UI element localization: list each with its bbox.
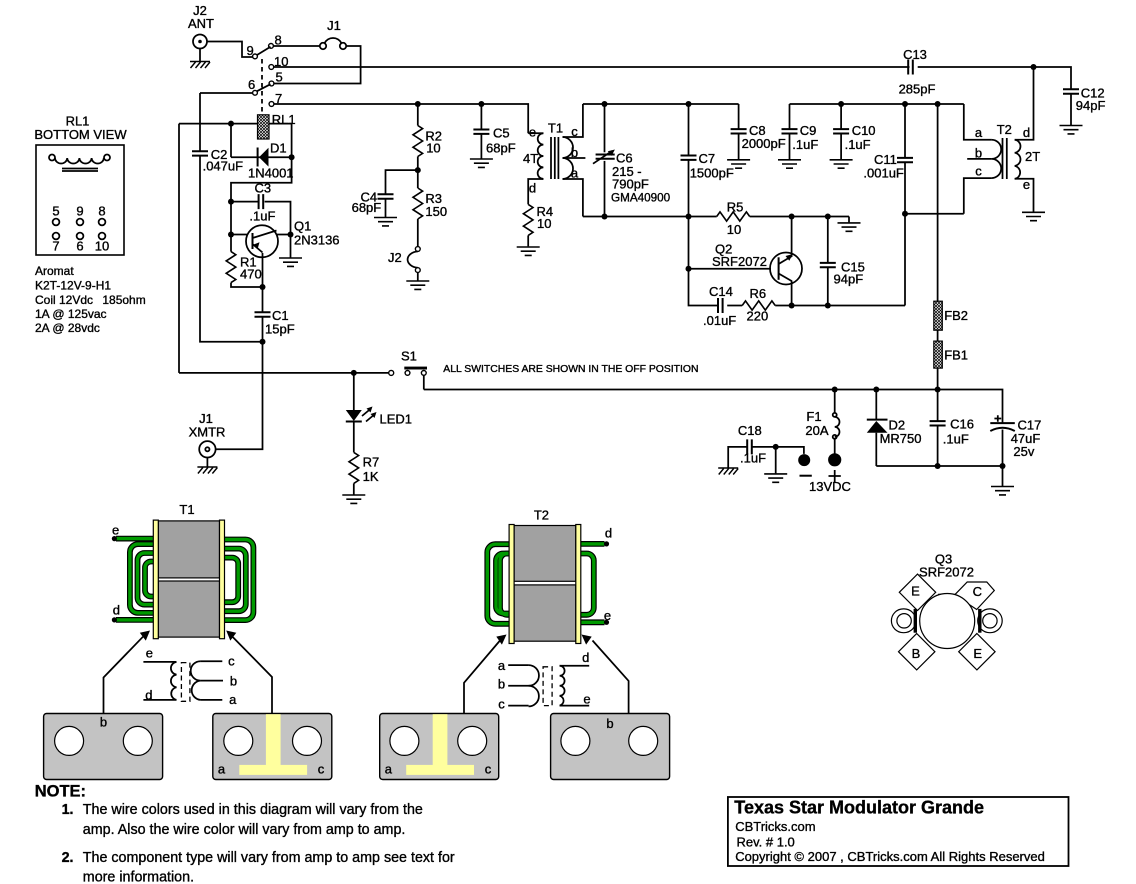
- svg-text:Rev. # 1.0: Rev. # 1.0: [737, 835, 795, 850]
- svg-text:MR750: MR750: [880, 431, 922, 446]
- svg-text:2A @ 28vdc: 2A @ 28vdc: [35, 321, 100, 335]
- svg-text:b: b: [100, 715, 107, 730]
- svg-text:Q1: Q1: [294, 219, 311, 234]
- svg-text:e: e: [1023, 177, 1030, 192]
- svg-text:8: 8: [98, 204, 105, 219]
- svg-text:470: 470: [240, 267, 262, 282]
- svg-text:SRF2072: SRF2072: [919, 565, 974, 580]
- svg-text:c: c: [228, 653, 235, 668]
- svg-text:1.: 1.: [62, 802, 74, 818]
- svg-text:C7: C7: [699, 151, 716, 166]
- svg-text:e: e: [583, 692, 590, 707]
- svg-text:Coil 12Vdc 185ohm: Coil 12Vdc 185ohm: [35, 293, 146, 307]
- svg-text:d: d: [605, 526, 612, 541]
- svg-text:RL1: RL1: [272, 112, 296, 127]
- svg-text:d: d: [145, 687, 152, 702]
- svg-text:ANT: ANT: [188, 16, 214, 31]
- svg-text:e: e: [112, 523, 119, 538]
- svg-text:2N3136: 2N3136: [294, 233, 340, 248]
- svg-text:C16: C16: [950, 417, 974, 432]
- svg-text:ALL SWITCHES ARE SHOWN IN THE: ALL SWITCHES ARE SHOWN IN THE OFF POSITI…: [443, 364, 698, 375]
- svg-text:R5: R5: [727, 200, 744, 215]
- svg-text:a: a: [385, 762, 393, 777]
- svg-text:10: 10: [537, 216, 551, 231]
- svg-text:94pF: 94pF: [834, 272, 864, 287]
- svg-text:10: 10: [426, 141, 440, 156]
- svg-text:25v: 25v: [1013, 444, 1034, 459]
- svg-text:BOTTOM VIEW: BOTTOM VIEW: [34, 127, 127, 142]
- svg-text:9: 9: [247, 43, 254, 58]
- svg-text:10: 10: [727, 222, 741, 237]
- svg-text:20A: 20A: [805, 423, 828, 438]
- svg-text:C13: C13: [903, 47, 927, 62]
- svg-text:6: 6: [248, 77, 255, 92]
- svg-text:SRF2072: SRF2072: [712, 254, 767, 269]
- svg-text:FB1: FB1: [944, 348, 968, 363]
- svg-text:b: b: [606, 716, 613, 731]
- svg-text:FB2: FB2: [944, 308, 968, 323]
- svg-text:T1: T1: [179, 502, 194, 517]
- svg-text:15pF: 15pF: [265, 322, 295, 337]
- svg-text:2T: 2T: [1025, 149, 1040, 164]
- svg-text:.01uF: .01uF: [703, 313, 736, 328]
- svg-text:e: e: [604, 608, 611, 623]
- svg-text:13VDC: 13VDC: [809, 479, 851, 494]
- svg-text:Copyright © 2007 , CBTricks.co: Copyright © 2007 , CBTricks.com All Righ…: [735, 849, 1045, 864]
- svg-text:d: d: [529, 181, 536, 196]
- svg-text:790pF: 790pF: [612, 177, 649, 192]
- svg-text:2000pF: 2000pF: [742, 136, 786, 151]
- svg-text:b: b: [230, 674, 237, 689]
- svg-text:T2: T2: [534, 508, 549, 523]
- svg-text:Texas Star Modulator Grande: Texas Star Modulator Grande: [734, 798, 984, 818]
- svg-text:a: a: [229, 692, 237, 707]
- svg-text:.047uF: .047uF: [203, 159, 244, 174]
- svg-text:a: a: [498, 658, 506, 673]
- svg-text:d: d: [1023, 125, 1030, 140]
- svg-text:6: 6: [76, 239, 83, 254]
- svg-text:.1uF: .1uF: [845, 137, 871, 152]
- svg-text:F1: F1: [806, 409, 821, 424]
- svg-text:285pF: 285pF: [899, 82, 936, 97]
- svg-text:b: b: [975, 146, 982, 161]
- svg-text:a: a: [571, 166, 579, 181]
- svg-text:1A @ 125vac: 1A @ 125vac: [35, 307, 107, 321]
- svg-text:b: b: [498, 677, 505, 692]
- svg-text:T2: T2: [997, 122, 1012, 137]
- svg-text:1N4001: 1N4001: [248, 166, 294, 181]
- svg-text:4T: 4T: [523, 151, 538, 166]
- svg-text:150: 150: [425, 204, 447, 219]
- svg-text:9: 9: [76, 204, 83, 219]
- svg-text:94pF: 94pF: [1076, 98, 1106, 113]
- svg-text:C: C: [973, 584, 982, 599]
- svg-text:XMTR: XMTR: [189, 425, 226, 440]
- svg-text:.1uF: .1uF: [249, 209, 275, 224]
- svg-text:C5: C5: [493, 126, 510, 141]
- svg-text:c: c: [318, 762, 325, 777]
- svg-text:B: B: [912, 646, 921, 661]
- svg-text:T1: T1: [548, 121, 563, 136]
- svg-text:c: c: [571, 124, 578, 139]
- svg-text:C14: C14: [709, 284, 733, 299]
- svg-text:Aromat: Aromat: [35, 264, 74, 278]
- svg-text:J1: J1: [327, 18, 341, 33]
- svg-text:b: b: [571, 145, 578, 160]
- svg-text:.1uF: .1uF: [792, 137, 818, 152]
- svg-text:C18: C18: [738, 423, 762, 438]
- svg-text:e: e: [146, 646, 153, 661]
- svg-text:68pF: 68pF: [486, 141, 516, 156]
- svg-text:5: 5: [276, 70, 283, 85]
- svg-text:1K: 1K: [363, 469, 379, 484]
- svg-text:68pF: 68pF: [352, 200, 382, 215]
- svg-text:a: a: [218, 762, 226, 777]
- svg-text:amp. Also the wire color will: amp. Also the wire color will vary from …: [83, 822, 406, 838]
- svg-text:E: E: [973, 646, 982, 661]
- svg-text:R6: R6: [750, 286, 767, 301]
- svg-text:The wire colors used in this d: The wire colors used in this diagram wil…: [83, 802, 423, 818]
- svg-text:10: 10: [95, 239, 109, 254]
- svg-text:NOTE:: NOTE:: [35, 783, 86, 801]
- svg-text:D1: D1: [270, 141, 287, 156]
- svg-text:5: 5: [52, 204, 59, 219]
- svg-text:7: 7: [52, 239, 59, 254]
- svg-text:d: d: [113, 603, 120, 618]
- svg-text:GMA40900: GMA40900: [611, 192, 671, 205]
- svg-text:e: e: [529, 125, 536, 140]
- svg-text:.001uF: .001uF: [863, 166, 904, 181]
- svg-text:CBTricks.com: CBTricks.com: [735, 819, 815, 834]
- svg-text:S1: S1: [401, 349, 417, 364]
- svg-text:R7: R7: [363, 455, 380, 470]
- svg-text:K2T-12V-9-H1: K2T-12V-9-H1: [35, 279, 111, 293]
- svg-text:.1uF: .1uF: [943, 432, 969, 447]
- svg-text:J2: J2: [388, 250, 402, 265]
- svg-text:LED1: LED1: [380, 412, 413, 427]
- svg-text:c: c: [498, 696, 505, 711]
- svg-text:1500pF: 1500pF: [690, 166, 734, 181]
- svg-text:C3: C3: [255, 181, 272, 196]
- svg-text:more information.: more information.: [83, 870, 194, 884]
- svg-text:c: c: [975, 164, 982, 179]
- svg-text:C9: C9: [800, 123, 817, 138]
- svg-text:The component type will vary f: The component type will vary from amp to…: [83, 850, 455, 866]
- svg-text:220: 220: [747, 309, 769, 324]
- svg-text:2.: 2.: [62, 850, 74, 866]
- svg-text:a: a: [975, 125, 983, 140]
- svg-text:d: d: [582, 650, 589, 665]
- svg-text:E: E: [911, 583, 920, 598]
- svg-text:C10: C10: [852, 123, 876, 138]
- svg-text:c: c: [485, 762, 492, 777]
- svg-text:.1uF: .1uF: [740, 451, 766, 466]
